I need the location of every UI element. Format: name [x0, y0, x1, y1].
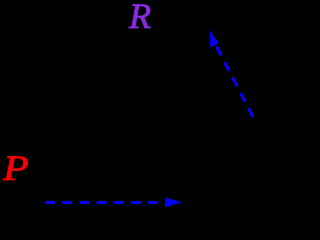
svg-text:R: R	[128, 0, 151, 36]
svg-text:P: P	[2, 149, 29, 189]
wire: horizontal dashed arrow shaft	[45, 201, 166, 204]
wire: diagonal dashed arrow shaft	[216, 46, 253, 118]
arrowhead of diagonal arrow	[210, 31, 219, 48]
arrowhead of horizontal arrow	[165, 198, 182, 208]
